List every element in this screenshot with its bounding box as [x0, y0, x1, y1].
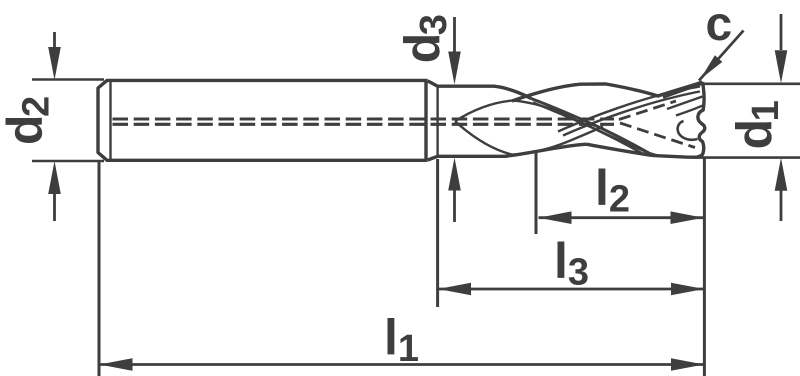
flute bottom contour	[586, 144, 688, 157]
l3 arrow right	[671, 283, 704, 296]
l1 arrow right	[671, 358, 704, 371]
d3 arrow bottom	[448, 158, 461, 191]
d1 extension top	[700, 83, 800, 86]
centerline upper	[113, 117, 615, 120]
d3 arrow top	[448, 52, 461, 85]
l2 arrow left	[539, 211, 572, 224]
flute edge pair A	[531, 99, 652, 155]
l3 dimension line	[438, 288, 704, 291]
d2 arrow top	[48, 47, 61, 80]
neck top edge	[428, 81, 531, 99]
d1 arrow bottom	[775, 158, 788, 191]
l2 extension left	[535, 153, 538, 234]
c leader line	[699, 31, 744, 81]
flute groove lens lower	[455, 121, 603, 154]
hidden ray lower	[620, 123, 695, 148]
c leader arrow	[700, 55, 722, 79]
right extension	[703, 158, 706, 376]
d2 arrow bottom	[48, 161, 61, 194]
l3 arrow left	[438, 283, 471, 296]
d2 extension bottom	[32, 160, 104, 163]
flute edge pair B	[533, 103, 644, 155]
shank outline	[98, 79, 426, 162]
flute groove lens upper	[455, 100, 657, 155]
l2 arrow right	[671, 211, 704, 224]
d1 extension bottom	[693, 156, 800, 159]
d1 dimension line	[780, 14, 783, 221]
flute land crest	[512, 82, 703, 101]
d3 dimension line	[453, 17, 456, 222]
tip corner radius arc	[678, 121, 698, 140]
tip corner chamfer lines	[663, 84, 703, 98]
l2 dimension line	[539, 216, 704, 219]
d1 arrow top	[775, 50, 788, 83]
neck start edge	[436, 87, 438, 156]
l1 arrow left	[100, 358, 133, 371]
d2 dimension line	[53, 32, 56, 221]
hidden ray upper	[619, 101, 676, 120]
shank chamfer edge	[109, 82, 111, 160]
tip end face	[688, 82, 705, 157]
centerline lower	[113, 123, 615, 126]
l1 dimension line	[100, 363, 705, 366]
svg-text:c: c	[706, 0, 733, 51]
neck bottom edge	[428, 144, 586, 160]
l1 extension left	[98, 162, 101, 376]
rising flute edge pair near tip	[558, 87, 700, 132]
l3 extension left	[436, 159, 439, 307]
d2 extension top	[32, 78, 104, 81]
